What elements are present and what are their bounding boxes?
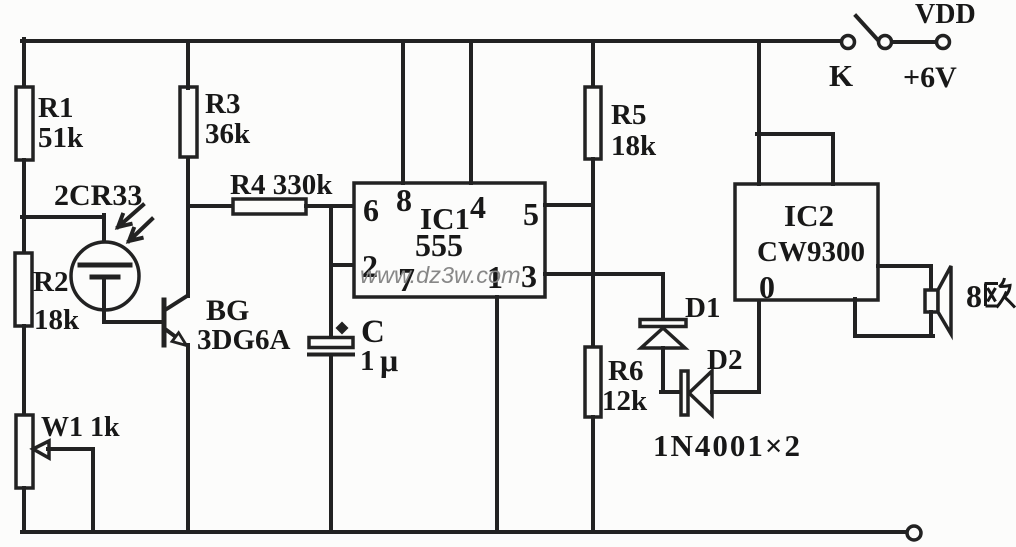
- wire photocell branch from left rail: [22, 215, 104, 219]
- svg-text:555: 555: [415, 227, 463, 263]
- svg-text:3DG6A: 3DG6A: [197, 324, 291, 356]
- resistor R3: [180, 87, 251, 157]
- resistor R5: [585, 87, 657, 162]
- wire IC1 pin2 lead: [331, 263, 354, 267]
- wire photocell bottom lead: [102, 277, 106, 322]
- wire R4 left lead: [189, 204, 234, 208]
- svg-text:R1: R1: [38, 92, 73, 124]
- wire IC1 pin4 to rail: [469, 41, 473, 183]
- wire R4 right lead to IC1 pin6: [306, 204, 354, 208]
- wire IC2 supply pin right jog: [757, 134, 833, 184]
- IC2 CW9300: [735, 184, 878, 305]
- resistor R2: [15, 253, 80, 336]
- svg-text:www.dz3w.com: www.dz3w.com: [360, 262, 521, 288]
- wire left rail upper segment: [22, 39, 26, 88]
- wire pin3 down to D1: [661, 274, 665, 319]
- svg-text:1N4001×2: 1N4001×2: [653, 428, 802, 463]
- svg-text:R6: R6: [608, 355, 643, 387]
- svg-text:6: 6: [363, 192, 379, 228]
- svg-text:36k: 36k: [205, 118, 251, 150]
- svg-text:5: 5: [523, 196, 539, 232]
- svg-text:+6V: +6V: [903, 61, 957, 94]
- svg-text:0: 0: [759, 269, 775, 305]
- svg-text:18k: 18k: [34, 304, 80, 336]
- wire junction down to capacitor: [329, 206, 333, 338]
- op-amp timer IC1 555: [354, 183, 545, 297]
- svg-text:4: 4: [470, 189, 486, 225]
- photocell 2CR33: [54, 179, 152, 310]
- wire left rail between R2 and W1: [22, 326, 26, 416]
- svg-text:8: 8: [966, 278, 982, 314]
- resistor R4: [230, 169, 333, 214]
- wire left rail below W1: [22, 488, 26, 532]
- svg-text:R4 330k: R4 330k: [230, 169, 333, 201]
- wire left rail between R1 and R2: [22, 160, 26, 254]
- resistor R6: [585, 347, 648, 417]
- svg-text:R2: R2: [33, 266, 68, 298]
- svg-text:μ: μ: [380, 342, 398, 378]
- wire R5 top to rail: [591, 41, 595, 88]
- svg-text:3: 3: [521, 258, 537, 294]
- svg-text:R3: R3: [205, 88, 240, 120]
- svg-text:K: K: [829, 58, 853, 93]
- svg-text:W1 1k: W1 1k: [41, 412, 120, 443]
- wire photocell top lead: [102, 215, 106, 266]
- wire top supply rail: [22, 39, 842, 43]
- wire emitter down to ground rail: [186, 345, 190, 532]
- wire collector up to R3: [186, 157, 190, 296]
- potentiometer W1: [16, 412, 120, 488]
- wire capacitor to ground rail: [329, 357, 333, 532]
- wire bottom ground rail: [22, 530, 907, 534]
- wire base lead to transistor: [104, 320, 164, 324]
- svg-text:51k: 51k: [38, 122, 84, 154]
- speaker 8 ohm: [925, 266, 1015, 334]
- wire R5 to R6: [591, 159, 595, 348]
- wire R3 top to rail: [186, 41, 190, 88]
- svg-text:12k: 12k: [602, 385, 648, 417]
- wire D2 to IC2 pin0: [712, 299, 759, 392]
- wire switch to VDD terminal: [892, 40, 936, 44]
- svg-text:R5: R5: [611, 99, 646, 131]
- svg-text:IC2: IC2: [784, 198, 834, 233]
- wire speaker return to IC2: [855, 299, 933, 336]
- svg-text:2CR33: 2CR33: [54, 179, 142, 212]
- svg-text:CW9300: CW9300: [757, 236, 865, 268]
- terminal ground right: [907, 526, 921, 540]
- svg-text:D2: D2: [707, 344, 742, 376]
- switch K: [829, 16, 892, 93]
- resistor R1: [16, 87, 84, 160]
- svg-text:18k: 18k: [611, 130, 657, 162]
- wire R6 to ground rail: [591, 417, 595, 532]
- terminal VDD: [903, 0, 976, 94]
- wire IC1 pin1 to ground rail: [495, 297, 499, 532]
- capacitor C 1u: [309, 314, 398, 378]
- svg-text:1: 1: [360, 345, 375, 377]
- svg-text:VDD: VDD: [915, 0, 976, 30]
- wire IC1 pin8 to rail: [401, 41, 405, 183]
- wire IC2 supply pin left: [757, 41, 761, 184]
- wire W1 wiper: [33, 441, 93, 532]
- svg-text:8: 8: [396, 182, 412, 218]
- wire IC1 pin5 to R5 R6 divider: [545, 203, 593, 207]
- wire IC2 output to speaker: [878, 266, 931, 290]
- wire IC1 pin3 output: [545, 272, 663, 276]
- diode D2: [681, 344, 742, 415]
- wire D1 to D2: [661, 348, 682, 392]
- svg-text:BG: BG: [206, 294, 249, 327]
- svg-text:D1: D1: [685, 292, 720, 324]
- transistor Q1 BG 3DG6A: [164, 294, 291, 356]
- diode D1: [640, 292, 720, 348]
